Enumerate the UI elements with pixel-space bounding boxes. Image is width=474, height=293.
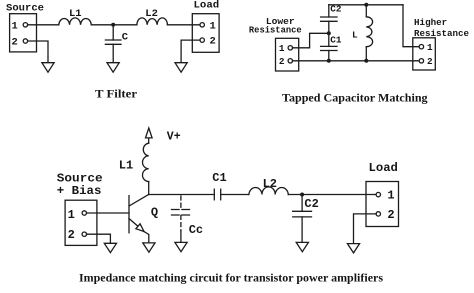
wire L1 to node A <box>91 24 137 26</box>
svg-text:2: 2 <box>427 56 433 67</box>
inductor L1 (vertical) <box>143 138 149 195</box>
node A junction dot <box>111 23 115 27</box>
svg-text:1: 1 <box>68 208 75 222</box>
inductor L2 <box>249 187 288 195</box>
wire source pin1 to L1 <box>28 24 59 26</box>
inductor L1 <box>59 18 92 25</box>
ground below C2 <box>296 242 308 251</box>
svg-text:2: 2 <box>12 37 18 49</box>
higher resistance box <box>413 38 436 70</box>
svg-text:1: 1 <box>209 20 215 32</box>
wire top rail to higher pin1 <box>403 5 419 47</box>
pin 1 of higher box <box>419 42 433 53</box>
ground below source+bias <box>104 243 116 252</box>
ground below source <box>42 63 54 72</box>
node C1 bottom junction dot <box>327 59 331 63</box>
tap node junction dot <box>327 31 331 35</box>
svg-text:Q: Q <box>151 206 158 220</box>
V+ supply arrow <box>146 128 153 138</box>
svg-text:2: 2 <box>387 208 394 222</box>
svg-text:Cc: Cc <box>189 223 203 237</box>
svg-text:L: L <box>352 29 358 40</box>
wire L2 to load pin1 <box>167 24 200 26</box>
wire load pin2 to ground <box>181 40 200 63</box>
base wire pin1 to Q <box>87 212 130 214</box>
pin 2 of higher box <box>419 56 433 67</box>
bottom rail wire <box>293 60 420 62</box>
wire load pin2 to ground <box>354 214 377 244</box>
svg-text:Load: Load <box>369 161 398 175</box>
top rail wire <box>329 4 403 6</box>
source+bias box <box>65 200 97 245</box>
svg-text:2: 2 <box>68 228 75 242</box>
svg-text:2: 2 <box>209 36 215 48</box>
wire pin2 to ground <box>87 234 111 243</box>
svg-text:V+: V+ <box>167 129 181 143</box>
svg-text:L2: L2 <box>145 8 158 20</box>
svg-text:L1: L1 <box>69 8 82 20</box>
svg-text:L1: L1 <box>119 159 133 173</box>
pin 2 of source <box>12 37 28 49</box>
wire C1 to L2 <box>221 194 249 196</box>
svg-text:Resistance: Resistance <box>249 25 302 36</box>
capacitor C1 <box>321 33 337 61</box>
pin 1 of lower box <box>279 43 293 54</box>
svg-text:L2: L2 <box>263 177 277 191</box>
svg-text:Resistance: Resistance <box>414 28 469 39</box>
ground below C <box>107 63 119 72</box>
wire L2 to load pin1 <box>288 194 376 196</box>
ground below load (bottom) <box>347 244 359 253</box>
svg-text:Tapped Capacitor Matching: Tapped Capacitor Matching <box>282 90 428 104</box>
pin 2 of load (bottom) <box>376 208 395 222</box>
pin 2 of load <box>200 36 216 48</box>
ground below load <box>175 63 187 72</box>
capacitor Cc (dashed) <box>172 196 190 231</box>
pin 2 of source+bias <box>68 228 87 242</box>
pin 1 of load (bottom) <box>376 189 395 203</box>
svg-text:Load: Load <box>194 0 220 11</box>
wire Cc to ground <box>180 231 182 242</box>
transistor Q <box>129 195 149 243</box>
pin 2 of lower box <box>279 56 293 67</box>
svg-text:C: C <box>122 31 129 43</box>
pin 1 of source <box>12 20 28 32</box>
ground below emitter <box>143 243 155 252</box>
svg-text:C2: C2 <box>304 197 318 211</box>
wire source pin2 to ground <box>28 41 48 63</box>
capacitor C1 (series) <box>214 189 220 200</box>
inductor L <box>366 5 372 61</box>
svg-text:C1: C1 <box>330 34 342 45</box>
svg-text:T Filter: T Filter <box>95 87 138 101</box>
label Source + Bias <box>57 171 103 198</box>
svg-text:+ Bias: + Bias <box>57 184 102 198</box>
svg-text:Source: Source <box>6 2 44 14</box>
capacitor C2 (shunt) <box>293 195 312 243</box>
svg-text:1: 1 <box>12 20 18 32</box>
ground below Cc <box>175 242 187 251</box>
source box <box>10 14 37 52</box>
pin 1 of source+bias <box>68 208 87 222</box>
lower resistance box <box>276 38 299 71</box>
capacitor C2 <box>321 5 337 34</box>
collector rail wire <box>149 194 215 196</box>
wire lower pin1 to tap node <box>293 33 329 48</box>
svg-text:1: 1 <box>279 43 285 54</box>
svg-text:1: 1 <box>387 189 394 203</box>
load box <box>192 14 219 53</box>
svg-text:1: 1 <box>427 42 433 53</box>
load box (bottom) <box>366 182 399 227</box>
node L top junction dot <box>364 3 368 7</box>
inductor L2 <box>137 18 168 25</box>
svg-text:2: 2 <box>279 56 285 67</box>
svg-text:C1: C1 <box>212 171 226 185</box>
svg-text:Higher: Higher <box>414 17 447 28</box>
node B junction dot <box>300 193 304 197</box>
capacitor C <box>105 25 121 63</box>
node L bottom junction dot <box>364 59 368 63</box>
svg-text:Impedance matching circuit for: Impedance matching circuit for transisto… <box>79 270 383 284</box>
pin 1 of load <box>200 20 216 32</box>
